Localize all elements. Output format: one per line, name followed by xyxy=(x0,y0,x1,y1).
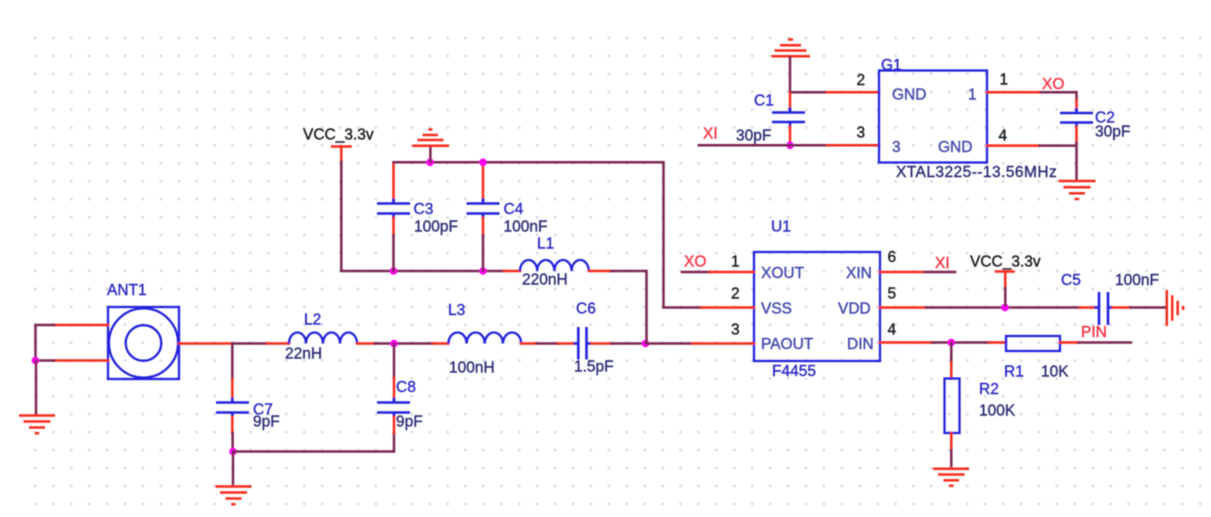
wire ANT1 right pin (red) xyxy=(179,342,232,345)
capacitor C1 xyxy=(736,93,805,145)
wire U1 pin 5 (red stub) xyxy=(880,306,926,309)
node C4 bottom junction xyxy=(479,267,487,275)
svg-text:VCC_3.3v: VCC_3.3v xyxy=(303,127,374,144)
ground (below C7) xyxy=(216,487,252,505)
svg-text:4: 4 xyxy=(999,128,1008,145)
svg-text:C5: C5 xyxy=(1061,272,1081,289)
wire ANT1 pin bottom-left (red stub) xyxy=(54,359,108,362)
wire XO to C2 top xyxy=(1041,92,1077,100)
wire C6 to PAOUT junction xyxy=(612,342,646,345)
svg-text:GND: GND xyxy=(892,87,926,104)
wire C7 branch down xyxy=(231,344,234,380)
svg-text:XOUT: XOUT xyxy=(761,265,805,282)
svg-text:XO: XO xyxy=(684,254,706,271)
wire U1 pin 3 (red stub) xyxy=(690,342,754,345)
svg-text:1.5pF: 1.5pF xyxy=(574,359,614,376)
wire down to C7 ground xyxy=(232,452,235,485)
node VDD junction xyxy=(1001,304,1009,312)
capacitor C4 xyxy=(467,164,548,236)
svg-text:R1: R1 xyxy=(1004,364,1024,381)
svg-text:5: 5 xyxy=(888,285,897,302)
node C1 bottom junction xyxy=(786,142,794,150)
wire U1 pin 4 (red stub) xyxy=(880,341,933,344)
wire ANT1 pin top-left (red stub) xyxy=(54,324,108,327)
node C3 bottom junction xyxy=(390,267,398,275)
wire XI net to G1 pin 3 xyxy=(699,144,827,147)
node PAOUT junction xyxy=(642,340,650,348)
svg-text:3: 3 xyxy=(857,125,866,142)
wire PAOUT junction to pin 3 xyxy=(646,342,691,345)
wire U1 pin 2 (red stub) xyxy=(701,306,754,309)
wire pin4 to C2 bottom and ground xyxy=(1040,143,1077,179)
resistor R1 xyxy=(989,336,1079,381)
svg-text:XO: XO xyxy=(1042,76,1064,93)
svg-text:L1: L1 xyxy=(537,236,554,253)
wire XO tail (U1 pin 1) xyxy=(682,271,710,274)
wire U1 pin 6 (red stub) xyxy=(880,271,925,274)
ground (inverted, above C3/C4 rail) xyxy=(412,130,449,146)
wire R2 to ground xyxy=(950,451,953,467)
wire junction to bottom-left stub xyxy=(36,359,55,362)
svg-text:3: 3 xyxy=(731,321,740,338)
ground (rotated, right of C5) xyxy=(1167,290,1183,326)
wire R1 to PIN net xyxy=(1079,341,1132,344)
ground (below C2) xyxy=(1059,181,1096,199)
inductor L1 xyxy=(504,236,612,289)
wire C4 bottom xyxy=(482,236,485,272)
power VCC_3.3v (left) xyxy=(303,127,374,163)
wire G1 pin 4 (red stub) xyxy=(987,144,1040,147)
wire L2 to L3 xyxy=(375,342,433,345)
svg-text:DIN: DIN xyxy=(847,336,874,353)
svg-text:GND: GND xyxy=(938,139,972,156)
svg-text:9pF: 9pF xyxy=(396,414,423,431)
wire G1 pin 3 (red stub) xyxy=(827,144,879,147)
op-amp U1 F4455 xyxy=(754,219,880,381)
wire VDD to C5 xyxy=(926,306,1080,309)
svg-text:F4455: F4455 xyxy=(772,363,816,380)
wire L3 to C6 xyxy=(537,342,558,345)
svg-text:C1: C1 xyxy=(754,93,774,110)
node ground stem junction xyxy=(426,159,434,167)
svg-text:2: 2 xyxy=(731,285,740,302)
svg-text:1: 1 xyxy=(1000,72,1009,89)
svg-text:4: 4 xyxy=(888,321,897,338)
wire ANT1 to L2 xyxy=(232,342,267,345)
inductor L2 xyxy=(267,312,375,363)
svg-text:100pF: 100pF xyxy=(414,219,458,236)
svg-text:1: 1 xyxy=(968,87,977,104)
svg-text:U1: U1 xyxy=(771,219,791,236)
svg-text:L3: L3 xyxy=(448,302,465,319)
ground (below ANT1) xyxy=(19,416,55,434)
svg-text:PAOUT: PAOUT xyxy=(761,336,814,353)
wire ANT1 top-left corner to junction xyxy=(36,325,55,361)
wire DIN junction down to R2 xyxy=(950,343,953,363)
capacitor C2 xyxy=(1060,100,1130,143)
capacitor C6 xyxy=(558,301,614,376)
svg-text:C3: C3 xyxy=(414,201,434,218)
capacitor C7 xyxy=(216,379,280,433)
capacitor C5 xyxy=(1061,272,1159,325)
node ANT1 left junction xyxy=(32,357,40,365)
svg-text:L2: L2 xyxy=(304,312,321,329)
svg-text:R2: R2 xyxy=(979,381,999,398)
svg-text:220nH: 220nH xyxy=(522,272,568,289)
svg-text:VDD: VDD xyxy=(838,301,871,318)
svg-text:C8: C8 xyxy=(396,379,416,396)
svg-text:XIN: XIN xyxy=(846,265,872,282)
inductor L3 xyxy=(433,302,537,377)
svg-text:C4: C4 xyxy=(504,201,524,218)
wire C7 bottom to junction xyxy=(231,433,234,452)
wire XI tail (U1 pin 6) xyxy=(925,271,955,274)
svg-text:2: 2 xyxy=(857,72,866,89)
svg-text:1: 1 xyxy=(731,253,740,270)
wire ground stem (above rail) xyxy=(429,147,432,162)
svg-text:6: 6 xyxy=(888,249,897,266)
svg-text:ANT1: ANT1 xyxy=(107,282,147,299)
wire VCC rail vertical and bottom rail xyxy=(341,162,504,271)
svg-text:100nF: 100nF xyxy=(504,219,548,236)
power VCC_3.3v (right) xyxy=(970,254,1041,306)
svg-text:30pF: 30pF xyxy=(736,128,771,145)
wire C1 ground stem and pin2 wire xyxy=(790,58,827,93)
wire C7 bottom to C8 bottom xyxy=(233,433,394,452)
svg-text:100nH: 100nH xyxy=(449,360,495,377)
wire down to antenna ground xyxy=(35,361,38,414)
wire C5 to right ground xyxy=(1131,306,1166,309)
ground (inverted, above C1) xyxy=(772,40,811,57)
wire U1 pin 1 (red stub) xyxy=(710,271,754,274)
antenna ANT1 xyxy=(107,282,179,379)
node C4 top junction xyxy=(479,159,487,167)
svg-text:XI: XI xyxy=(935,255,950,272)
node C7 bottom junction xyxy=(229,448,237,456)
svg-text:XTAL3225--13.56MHz: XTAL3225--13.56MHz xyxy=(896,164,1057,181)
svg-text:3: 3 xyxy=(892,139,901,156)
svg-text:22nH: 22nH xyxy=(285,346,322,363)
wire G1 pin 2 (red stub) xyxy=(827,91,879,94)
svg-text:100nF: 100nF xyxy=(1115,272,1159,289)
svg-text:G1: G1 xyxy=(881,57,902,74)
wire pin 4 to R1 xyxy=(933,341,990,344)
resistor R2 xyxy=(945,363,1016,451)
svg-text:PIN: PIN xyxy=(1081,324,1107,341)
node C8 top junction xyxy=(390,340,398,348)
wire L1 down to PAOUT junction xyxy=(612,271,647,344)
svg-text:C6: C6 xyxy=(576,301,596,318)
wire C3 bottom xyxy=(392,236,395,272)
capacitor C3 xyxy=(377,164,458,236)
svg-text:XI: XI xyxy=(703,126,718,143)
node DIN junction xyxy=(948,339,956,347)
op-amp G1 crystal XTAL3225 xyxy=(879,57,1057,181)
wire top rail C3 to VSS xyxy=(394,162,702,307)
ground (below R2) xyxy=(933,469,969,486)
wire C8 branch down xyxy=(393,344,396,379)
svg-text:VSS: VSS xyxy=(761,301,792,318)
svg-text:30pF: 30pF xyxy=(1095,124,1130,141)
wire G1 pin 1 (red stub) xyxy=(987,91,1041,94)
svg-text:100K: 100K xyxy=(979,403,1016,420)
svg-text:10K: 10K xyxy=(1041,364,1069,381)
capacitor C8 xyxy=(377,378,423,433)
svg-text:9pF: 9pF xyxy=(253,414,280,431)
svg-text:VCC_3.3v: VCC_3.3v xyxy=(970,254,1041,271)
